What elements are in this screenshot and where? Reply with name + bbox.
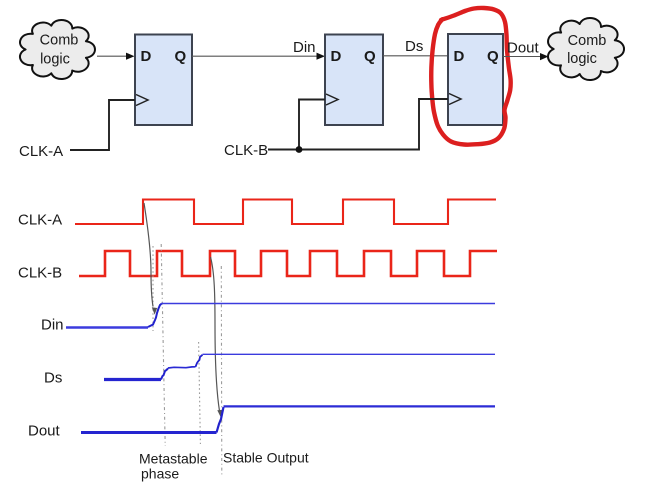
waveform CLK-A (red): [75, 200, 496, 225]
guide dotted line C (metastable window end): [199, 342, 201, 444]
guide dotted line A (Din transition): [152, 246, 154, 331]
waveform Dout low (blue, thick): [81, 431, 217, 434]
svg-text:Q: Q: [487, 48, 499, 65]
arrowhead into FF1 D: [126, 53, 135, 60]
waveform Ds metastable step 1: [161, 368, 168, 379]
svg-text:Metastable: Metastable: [139, 451, 208, 467]
svg-text:Din: Din: [41, 317, 64, 334]
guide dash-dot line B (metastable window start): [161, 244, 165, 446]
guide dotted line D (stable output start): [220, 266, 223, 476]
causality arrow: CLK-B edge to Dout: [211, 257, 224, 419]
svg-text:Ds: Ds: [44, 370, 62, 387]
waveform Din high (thin): [161, 303, 495, 305]
waveform Ds metastable step 2: [196, 355, 203, 367]
waveform CLK-B (red): [79, 251, 497, 276]
wire: Q3 to right cloud (net Dout): [503, 56, 541, 58]
waveform Dout rising ramp: [217, 407, 224, 433]
svg-text:phase: phase: [141, 466, 179, 482]
svg-text:Q: Q: [364, 48, 376, 65]
svg-text:Ds: Ds: [405, 38, 423, 55]
causality arrow: CLK-A edge to Din: [144, 203, 157, 315]
svg-text:Dout: Dout: [507, 40, 540, 57]
waveform Ds metastable mid level: [168, 367, 196, 368]
svg-text:Din: Din: [293, 39, 316, 56]
wire: CLK-B trunk to U3 clock: [268, 99, 448, 150]
waveform Ds low (blue, thick): [104, 378, 161, 381]
wire: Q2 to FF3 D (net Ds): [383, 55, 448, 57]
arrowhead into right cloud: [540, 53, 549, 60]
waveform Dout high: [224, 405, 496, 407]
svg-text:Q: Q: [175, 48, 187, 65]
svg-text:Stable Output: Stable Output: [223, 450, 309, 466]
flip-flop U1: [135, 35, 192, 126]
wire: cloud to FF1 D input: [97, 55, 127, 57]
wire: CLK-B branch to U2 clock: [299, 100, 325, 150]
arrowhead into FF2 D: [317, 53, 326, 60]
svg-text:Comb: Comb: [40, 33, 79, 49]
svg-text:Comb: Comb: [568, 33, 607, 49]
svg-text:CLK-B: CLK-B: [18, 265, 62, 282]
svg-text:D: D: [141, 48, 152, 65]
red hand-drawn circle around U3: [431, 8, 510, 145]
svg-text:CLK-A: CLK-A: [19, 143, 63, 160]
waveform Din low (blue, thick): [66, 326, 148, 329]
cloud: right Comb logic: [548, 18, 624, 80]
cloud: left Comb logic: [20, 20, 95, 79]
flip-flop U3: [448, 34, 503, 125]
wire: CLK-A to U1 clock: [70, 100, 135, 150]
clock pin chevron U3: [449, 94, 461, 105]
svg-text:D: D: [454, 48, 465, 65]
svg-text:Dout: Dout: [28, 423, 61, 440]
waveform Din rising ramp: [148, 304, 162, 327]
clock pin chevron U2: [326, 94, 338, 105]
junction node on CLK-B: [296, 146, 303, 153]
clock pin chevron U1: [136, 95, 148, 106]
flip-flop U2: [325, 35, 383, 126]
svg-text:D: D: [331, 48, 342, 65]
svg-text:CLK-B: CLK-B: [224, 142, 268, 159]
svg-text:logic: logic: [40, 52, 70, 68]
waveform Ds high (thin): [203, 353, 496, 355]
svg-text:CLK-A: CLK-A: [18, 212, 62, 229]
svg-text:logic: logic: [567, 51, 597, 67]
wire: Q1 to FF2 D (net Din): [192, 55, 318, 57]
